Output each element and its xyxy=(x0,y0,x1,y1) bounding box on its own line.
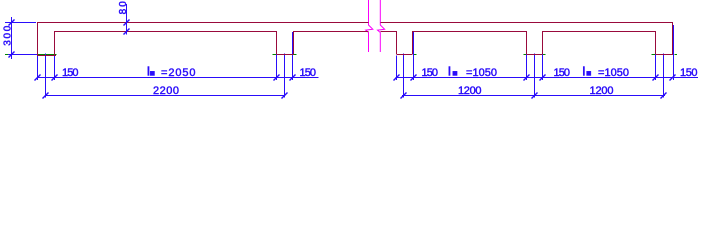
svg-text:2200: 2200 xyxy=(153,85,179,97)
svg-text:80: 80 xyxy=(118,1,129,15)
svg-text:150: 150 xyxy=(680,67,698,79)
svg-text:150: 150 xyxy=(422,67,439,79)
svg-text:=1050: =1050 xyxy=(466,67,497,79)
svg-text:300: 300 xyxy=(2,25,13,45)
svg-text:1200: 1200 xyxy=(590,85,614,97)
svg-text:150: 150 xyxy=(300,67,317,79)
svg-text:=2050: =2050 xyxy=(161,67,196,79)
svg-text:150: 150 xyxy=(554,67,571,79)
svg-text:=1050: =1050 xyxy=(598,67,629,79)
svg-text:1200: 1200 xyxy=(458,85,482,97)
svg-text:150: 150 xyxy=(62,67,79,79)
